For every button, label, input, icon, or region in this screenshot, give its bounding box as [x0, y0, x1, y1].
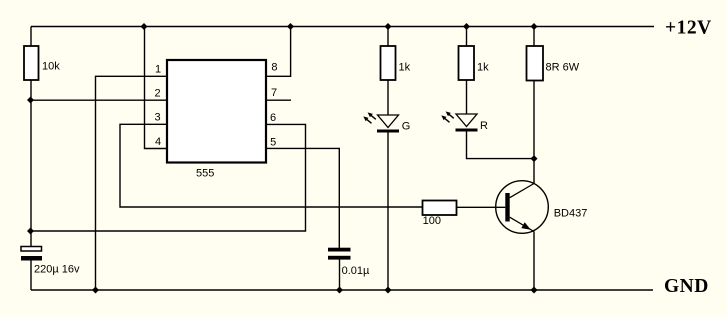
svg-text:4: 4 — [155, 136, 161, 148]
svg-text:+12V: +12V — [665, 18, 712, 39]
svg-text:GND: GND — [664, 276, 709, 297]
svg-text:1k: 1k — [399, 62, 411, 74]
svg-text:G: G — [402, 120, 411, 132]
svg-text:5: 5 — [270, 137, 276, 149]
svg-text:2: 2 — [154, 88, 160, 100]
svg-text:1k: 1k — [477, 62, 489, 74]
svg-text:BD437: BD437 — [554, 208, 588, 220]
svg-text:6: 6 — [270, 112, 276, 124]
svg-text:7: 7 — [271, 87, 277, 99]
svg-text:555: 555 — [196, 168, 214, 180]
svg-text:R: R — [480, 120, 488, 132]
svg-text:10k: 10k — [42, 61, 60, 73]
svg-text:8: 8 — [271, 62, 277, 74]
svg-text:8R 6W: 8R 6W — [546, 62, 580, 74]
svg-text:1: 1 — [155, 63, 161, 75]
svg-text:220µ 16v: 220µ 16v — [34, 264, 80, 276]
svg-text:100: 100 — [423, 215, 441, 227]
svg-text:3: 3 — [154, 111, 160, 123]
svg-text:0.01µ: 0.01µ — [342, 265, 370, 277]
